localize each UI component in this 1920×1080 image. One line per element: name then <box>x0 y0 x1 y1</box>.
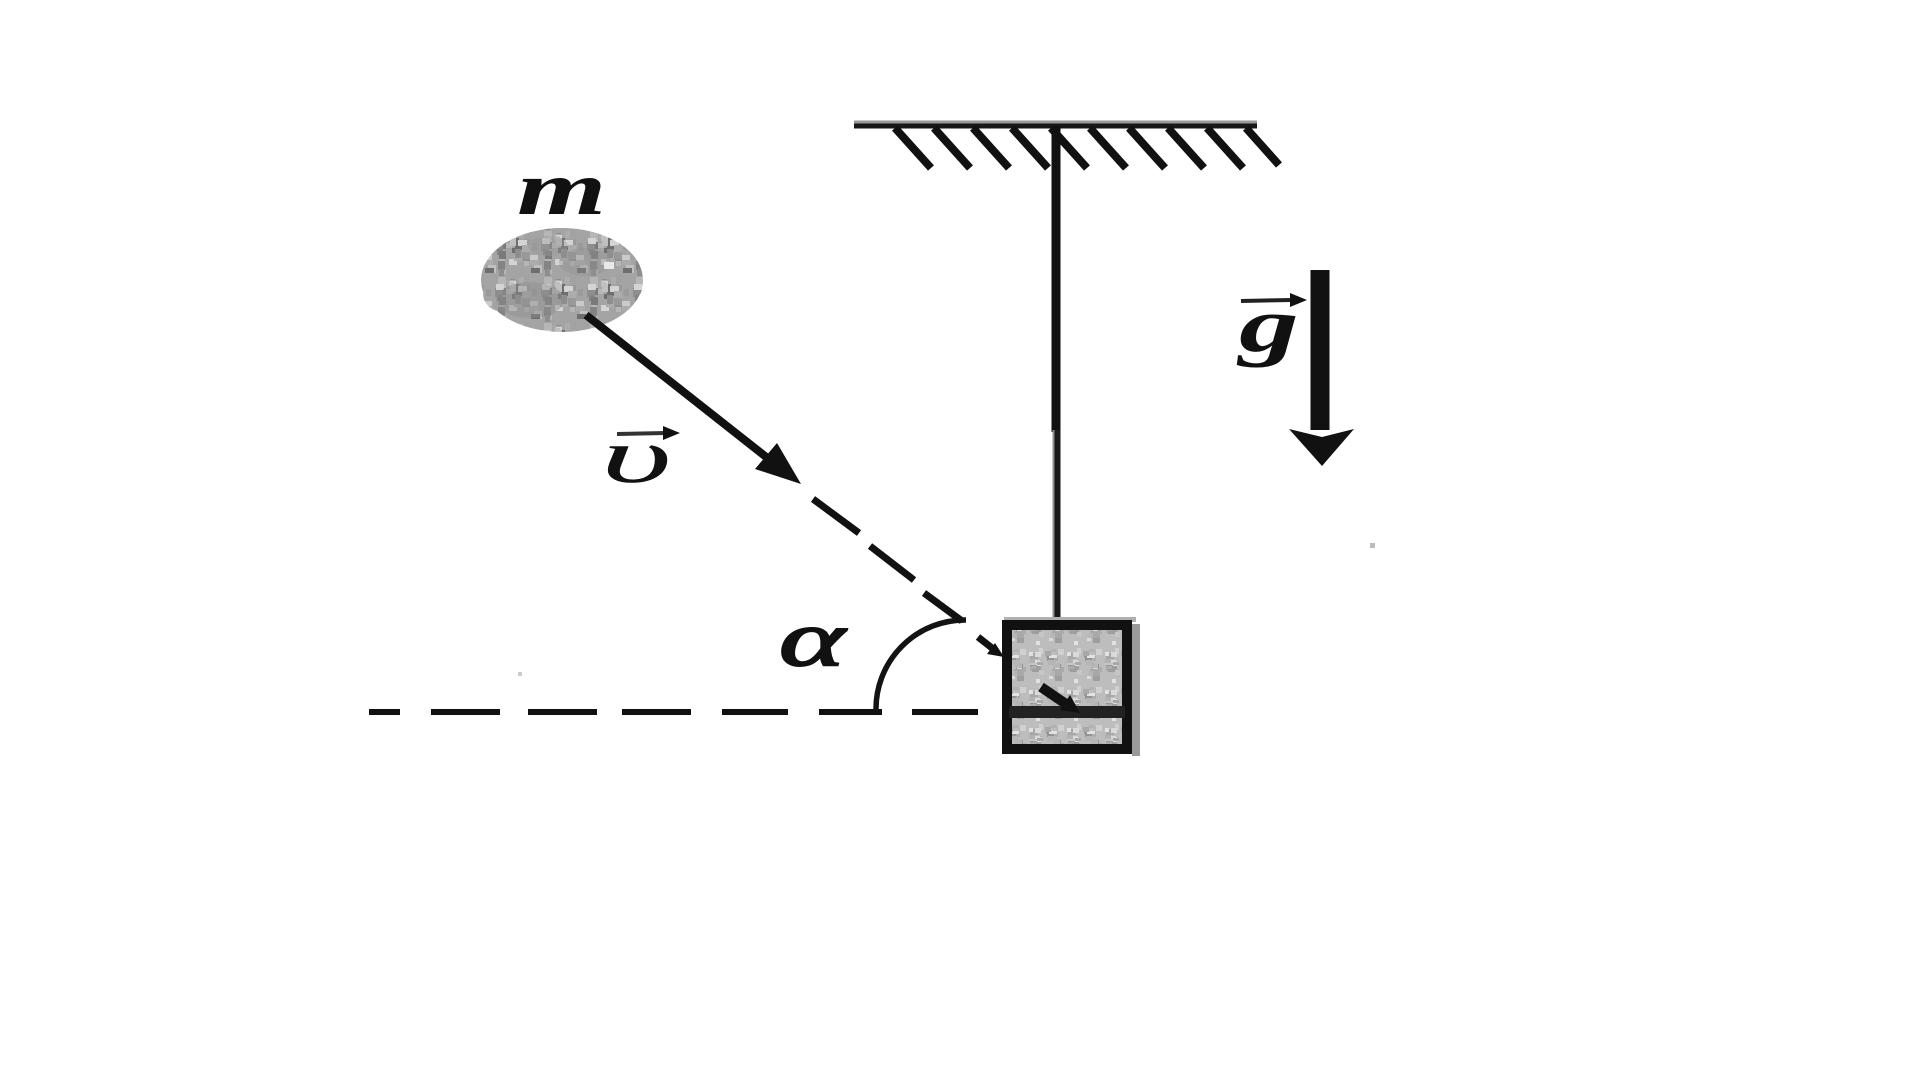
svg-text:g: g <box>1237 283 1299 368</box>
ceiling <box>854 121 1257 129</box>
gravity vector g <box>1289 270 1354 466</box>
horizontal dashed line <box>369 709 978 715</box>
label v <box>601 413 680 499</box>
svg-text:υ: υ <box>601 413 672 499</box>
svg-text:α: α <box>779 595 847 682</box>
ball m <box>481 228 643 332</box>
dashed trajectory <box>813 499 962 621</box>
label alpha <box>779 595 847 682</box>
velocity vector v <box>586 315 801 484</box>
small arrowhead entering block <box>978 637 1004 657</box>
string <box>1054 126 1058 624</box>
label m <box>517 147 606 231</box>
label g <box>1237 283 1307 368</box>
speck <box>1370 543 1375 548</box>
angle arc <box>876 620 966 711</box>
hatch marks <box>895 128 1279 168</box>
arrow inside block <box>1041 687 1080 713</box>
speck <box>518 672 522 676</box>
block (pendulum bob) <box>1002 617 1140 756</box>
svg-text:m: m <box>517 147 606 231</box>
